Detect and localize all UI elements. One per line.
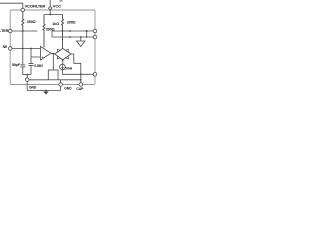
svg-text:390Ω: 390Ω — [67, 21, 76, 25]
VCC supply diamond symbol — [49, 6, 52, 10]
wire node x31 down with jog to op-amp input 2 — [31, 49, 41, 58]
diode bump bottom-left — [57, 56, 60, 59]
junction diamond bottom — [62, 59, 64, 61]
wire C1 to ground bus — [22, 67, 24, 74]
wire to VCOFILTER pin (top-left external) — [0, 3, 23, 8]
svg-text:5mA: 5mA — [65, 66, 73, 70]
VCC rail — [44, 14, 63, 16]
wire y31 right segment to pin — [52, 30, 93, 32]
pin right 3 — [93, 73, 97, 77]
ground (internal, open triangle) — [77, 41, 85, 47]
earth ground symbol — [43, 91, 49, 94]
stub to internal ground — [80, 37, 82, 41]
junction at x23 — [22, 48, 24, 50]
svg-text:NE: NE — [3, 45, 8, 49]
current source I1 5mA — [60, 64, 66, 70]
resistor R2 (VCC to op-amp) — [43, 15, 45, 48]
wire op-amp output to diamond left vertex — [51, 52, 55, 55]
wire GND pin to bus — [60, 86, 62, 90]
stub rail to GND pin — [60, 80, 62, 83]
resistor R1 390 (vertical, below VCOFILTER pin) — [22, 12, 24, 31]
resistor R4 (box style) — [48, 70, 58, 80]
wire link between y31 and y37 nets — [86, 31, 88, 37]
wire node circle down through edge to external bus — [26, 81, 28, 90]
junction link bottom — [86, 36, 88, 38]
wire left pin to R1 node — [12, 30, 38, 32]
left pin (FILTER, cropped label) — [8, 29, 12, 33]
svg-text:VCC: VCC — [53, 4, 61, 9]
resistor R3 (VCC to tank top) — [61, 15, 63, 49]
junction y37 x70 — [69, 36, 71, 38]
wire left pin2 to op-amp input — [12, 48, 41, 50]
junction op-amp out — [52, 53, 54, 55]
wire dot to box resistor — [52, 54, 54, 70]
junction R1/wire — [22, 30, 24, 32]
junction link top — [86, 30, 88, 32]
corner wire x52 down — [51, 31, 53, 37]
svg-text:390Ω: 390Ω — [27, 20, 36, 24]
wire diamond right vertex stair to cap pin — [71, 54, 81, 83]
wire R1 down to node row 48.5 — [22, 31, 24, 49]
left pin 2 (cropped label E) — [8, 47, 12, 51]
pin VCOFILTER — [21, 8, 25, 12]
wire VCC pin into box — [49, 10, 51, 15]
junction caps bus — [26, 74, 28, 76]
svg-text:GND: GND — [29, 85, 37, 89]
diode bump bottom-right — [66, 56, 69, 59]
svg-text:0.88V: 0.88V — [34, 64, 43, 68]
svg-text:CAP: CAP — [76, 87, 84, 91]
varactor bridge diamond — [55, 48, 71, 60]
wire C2 to ground bus — [30, 66, 32, 75]
pin right 1 — [93, 29, 97, 33]
op-amp U1 — [41, 46, 52, 60]
pin CAP (bottom edge) — [79, 83, 83, 87]
wire x31 down to capacitor C2 — [30, 57, 32, 63]
wire current source to output pin — [63, 69, 94, 74]
wire diamond bottom vertex down — [62, 60, 64, 64]
capacitor C2 plates — [29, 64, 34, 66]
wire VCC external with supply diamond — [49, 0, 51, 6]
ground rail y80 — [29, 79, 81, 81]
svg-text:LTER: LTER — [0, 29, 9, 33]
junction VCC rail — [49, 14, 51, 16]
svg-text:39pF: 39pF — [12, 63, 21, 67]
cropped text fragment top — [60, 0, 63, 2]
current source arrow — [62, 65, 64, 69]
junction y37 x81 — [80, 36, 82, 38]
op-amp + input mark — [42, 57, 44, 59]
wire y37 to pin — [52, 36, 93, 38]
junction rail / cap-pin vertical — [80, 79, 82, 81]
diode bump top-left — [57, 49, 60, 52]
capacitor C1 plates — [20, 65, 25, 67]
junction R3 / wire y31 — [62, 30, 64, 32]
node circle above bottom edge — [25, 78, 29, 82]
external ground bus — [27, 90, 60, 92]
svg-text:VCOFILTER: VCOFILTER — [25, 4, 46, 9]
svg-text:GND: GND — [64, 86, 72, 90]
junction at x31 — [30, 48, 32, 50]
junction y74 x81 — [80, 73, 82, 75]
junction y31 x70 — [69, 30, 71, 32]
diode bump top-right — [66, 49, 69, 52]
svg-text:1kΩ: 1kΩ — [52, 22, 59, 26]
IC box outline — [10, 10, 95, 85]
pin GND (bottom edge) — [59, 83, 63, 87]
ground bus under caps — [23, 74, 31, 76]
junction earth — [45, 90, 47, 92]
wire node to capacitor C1 — [22, 49, 24, 65]
pin right 2 — [93, 35, 97, 39]
stub to bottom node circle — [26, 75, 28, 79]
